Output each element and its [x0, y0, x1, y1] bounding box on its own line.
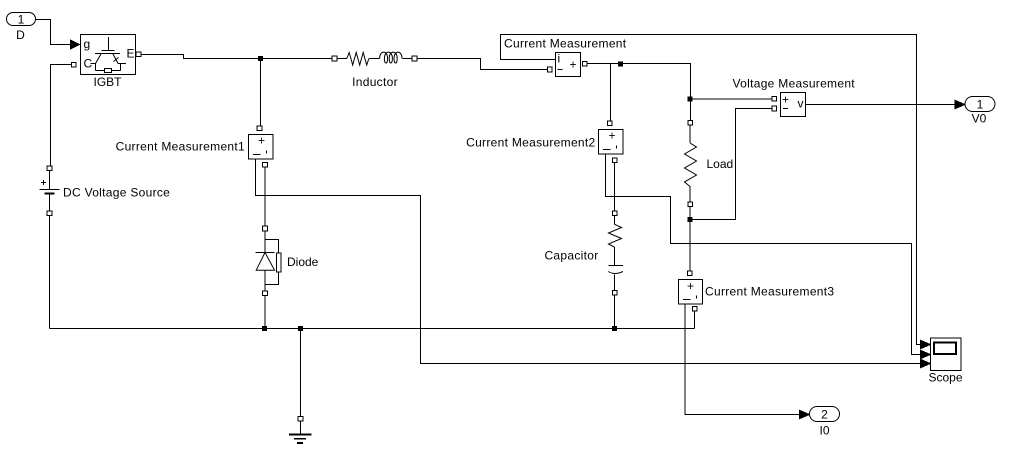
wire CM3 minus to ground bus [694, 311, 696, 329]
svg-text:Current Measurement2: Current Measurement2 [466, 136, 595, 150]
Scope block [931, 338, 961, 370]
svg-text:Current Measurement1: Current Measurement1 [116, 140, 245, 154]
svg-text:Voltage Measurement: Voltage Measurement [733, 77, 856, 91]
IGBT E port [136, 52, 141, 57]
svg-text:IGBT: IGBT [93, 75, 122, 89]
wire diode to ground bus [264, 296, 266, 329]
svg-text:V0: V0 [972, 112, 987, 126]
junction dot ground-bus [299, 327, 303, 331]
wire IGBT C to DC source plus [51, 65, 72, 167]
svg-text:+: + [569, 58, 576, 72]
IGBT block U1 [81, 35, 136, 75]
svg-text:+: + [782, 93, 789, 107]
svg-text:1: 1 [977, 98, 984, 112]
Current Measurement3 block [679, 271, 703, 311]
DC Voltage Source B1 [40, 166, 60, 216]
svg-text:1: 1 [18, 13, 25, 27]
svg-text:g: g [84, 37, 91, 51]
svg-text:v: v [798, 97, 804, 111]
output port I0 oval [810, 407, 840, 422]
svg-text:C: C [84, 57, 93, 71]
wire lower node to Current Measurement3 [689, 220, 691, 272]
Current Measurement block [548, 53, 588, 77]
label: CM minus [558, 69, 563, 71]
junction dot lower node [688, 218, 692, 222]
wire Voltage Measurement to output V0 [806, 104, 956, 106]
signal wire Current Measurement2 to Scope input 2 [606, 154, 921, 355]
svg-text:i: i [558, 52, 561, 66]
svg-text:Load: Load [707, 157, 734, 171]
svg-text:+: + [258, 134, 265, 148]
svg-text:Inductor: Inductor [352, 75, 398, 89]
junction dot on output rail [618, 62, 622, 66]
svg-text:Current Measurement: Current Measurement [504, 37, 627, 51]
wire capacitor to ground bus [614, 295, 616, 328]
Current Measurement1 block [249, 126, 274, 167]
label: VM minus [783, 108, 788, 110]
signal wire Current Measurement3 to output I0 [685, 304, 799, 415]
svg-text:+: + [608, 129, 615, 143]
wire load bottom to lower node [689, 207, 691, 220]
ground bus wire [50, 328, 695, 330]
svg-text:2: 2 [821, 408, 828, 422]
svg-text:Capacitor: Capacitor [544, 249, 598, 263]
wire bus to ground symbol [300, 329, 302, 417]
wire inductor to Current Measurement [417, 59, 548, 70]
wire DC source minus down to ground bus [49, 216, 51, 329]
Load R1 [685, 121, 697, 207]
label: CM2 minus tick [603, 146, 617, 150]
svg-text:Current Measurement3: Current Measurement3 [705, 285, 834, 299]
svg-text:Scope: Scope [928, 371, 962, 385]
svg-text:I0: I0 [819, 424, 829, 438]
junction dot diode-bus [263, 327, 267, 331]
Capacitor C1 [608, 211, 623, 295]
I0 arrowhead [799, 410, 809, 419]
wire load node to Voltage Measurement plus [691, 98, 772, 100]
CM2 physical wire to capacitor [614, 163, 616, 211]
label: CM3 minus tick [683, 296, 697, 300]
svg-text:DC Voltage Source: DC Voltage Source [63, 186, 170, 200]
signal wire Current Measurement to Scope input 1 [501, 35, 921, 345]
label: CM1 minus tick [253, 151, 267, 155]
Current Measurement label frame [501, 35, 556, 60]
output port V0 oval [965, 97, 995, 112]
Diode D1 [256, 226, 281, 295]
wire rail to Current Measurement2 [610, 64, 612, 122]
scope input 3 arrowhead [920, 359, 930, 368]
V0 arrowhead [955, 100, 965, 109]
svg-text:Diode: Diode [287, 255, 319, 269]
signal wire Current Measurement1 to Scope input 3 [256, 159, 921, 364]
wire Current Measurement plus to load node [587, 64, 690, 121]
wire node to Current Measurement1 [260, 59, 262, 127]
svg-text:D: D [16, 28, 25, 42]
scope input 1 arrowhead [920, 340, 930, 349]
CM1 physical wire to diode [264, 167, 266, 226]
junction dot capacitor-bus [613, 327, 617, 331]
junction node at CM1 branch [258, 57, 262, 61]
wire D to IGBT gate [36, 20, 71, 45]
scope input 2 arrowhead [920, 350, 930, 359]
ground symbol [289, 417, 312, 444]
wire IGBT E to inductor [141, 55, 332, 59]
IGBT C port [72, 63, 77, 68]
svg-text:+: + [687, 279, 694, 293]
Inductor L1 [332, 52, 417, 65]
Voltage Measurement block [772, 93, 806, 117]
junction dot at VM plus tap [688, 97, 692, 101]
IGBT gate arrowhead [71, 40, 80, 49]
Current Measurement2 block [599, 121, 624, 163]
svg-text:E: E [127, 47, 135, 61]
input port D oval [7, 13, 36, 26]
wire lower node to Voltage Measurement minus [690, 109, 772, 220]
